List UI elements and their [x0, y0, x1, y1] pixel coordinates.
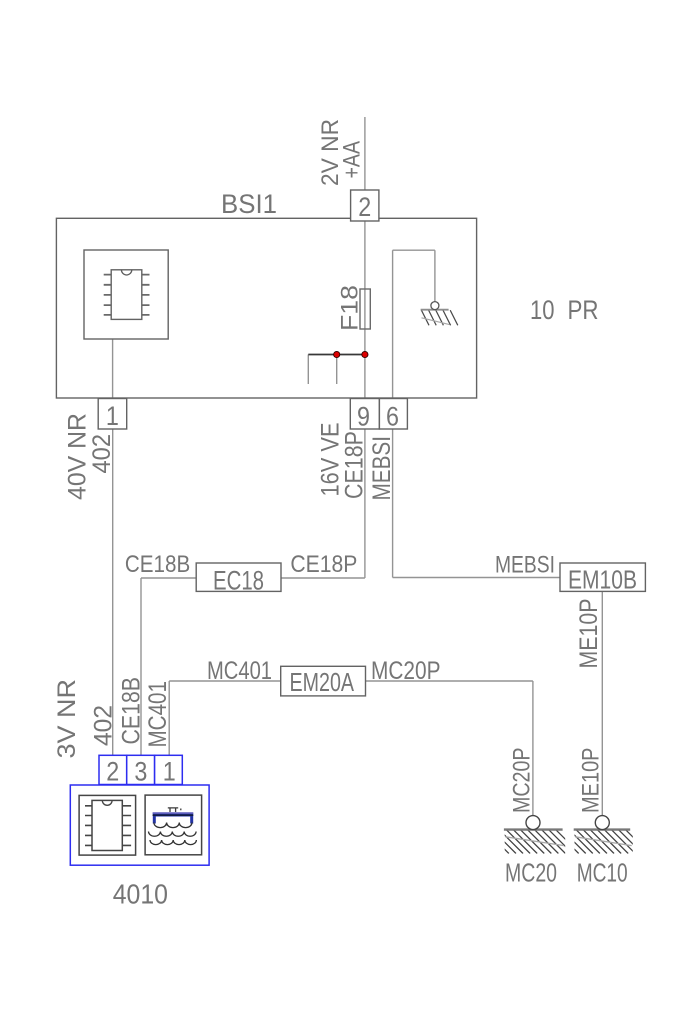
- svg-text:4010: 4010: [113, 879, 168, 910]
- svg-text:ME10P: ME10P: [575, 599, 603, 669]
- svg-text:BSI1: BSI1: [221, 189, 277, 219]
- svg-text:MC401: MC401: [207, 657, 272, 685]
- svg-text:9: 9: [357, 402, 370, 432]
- svg-text:CE18B: CE18B: [125, 551, 190, 578]
- svg-text:+AA: +AA: [339, 141, 366, 179]
- svg-text:1: 1: [106, 401, 119, 431]
- svg-text:10: 10: [530, 295, 555, 325]
- svg-text:3V NR: 3V NR: [53, 679, 81, 759]
- svg-text:2: 2: [358, 192, 371, 222]
- svg-text:F18: F18: [337, 285, 364, 331]
- svg-text:CE18P: CE18P: [341, 431, 369, 499]
- svg-text:3: 3: [134, 757, 147, 787]
- svg-text:1: 1: [163, 757, 176, 787]
- svg-text:6: 6: [386, 402, 399, 432]
- svg-text:MEBSI: MEBSI: [495, 552, 555, 579]
- svg-text:MC20: MC20: [505, 858, 557, 888]
- svg-text:EM10B: EM10B: [568, 565, 637, 595]
- svg-text:MEBSI: MEBSI: [368, 436, 396, 501]
- svg-text:ME10P: ME10P: [578, 748, 605, 814]
- svg-text:MC20P: MC20P: [509, 748, 536, 814]
- svg-text:CE18P: CE18P: [290, 551, 357, 578]
- svg-text:EC18: EC18: [213, 566, 264, 596]
- svg-text:MC10: MC10: [577, 858, 628, 888]
- svg-text:402: 402: [90, 705, 118, 746]
- svg-text:MC20P: MC20P: [371, 657, 441, 685]
- svg-text:402: 402: [88, 434, 116, 474]
- svg-text:EM20A: EM20A: [290, 667, 355, 697]
- svg-text:PR: PR: [568, 295, 599, 325]
- svg-text:MC401: MC401: [144, 681, 172, 748]
- svg-text:CE18B: CE18B: [118, 677, 146, 745]
- svg-text:2: 2: [106, 757, 119, 787]
